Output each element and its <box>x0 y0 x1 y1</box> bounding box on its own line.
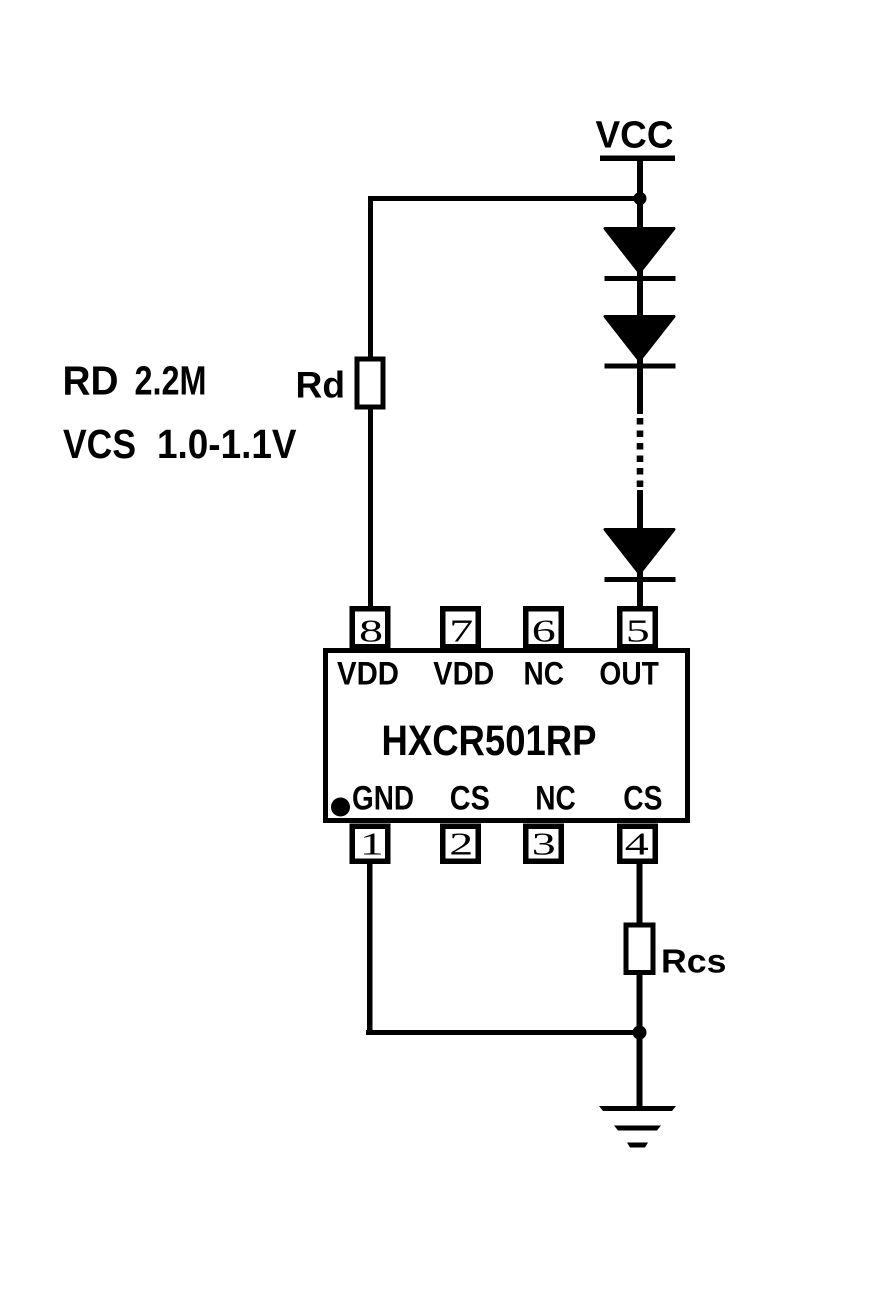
svg-text:NC: NC <box>535 779 576 817</box>
svg-text:3: 3 <box>532 825 556 861</box>
svg-text:4: 4 <box>625 825 649 861</box>
svg-text:OUT: OUT <box>599 655 659 691</box>
svg-text:GND: GND <box>352 779 414 817</box>
svg-text:VDD: VDD <box>337 655 399 691</box>
svg-text:CS: CS <box>623 779 662 817</box>
svg-text:HXCR501RP: HXCR501RP <box>382 717 597 765</box>
svg-text:2: 2 <box>449 825 473 861</box>
svg-text:5: 5 <box>626 613 650 649</box>
svg-text:RD: RD <box>63 357 119 403</box>
svg-text:6: 6 <box>532 613 556 649</box>
svg-text:VCS: VCS <box>63 421 136 467</box>
svg-text:CS: CS <box>450 779 490 817</box>
svg-text:NC: NC <box>524 655 565 691</box>
svg-text:VDD: VDD <box>433 655 494 691</box>
svg-text:8: 8 <box>359 613 383 649</box>
svg-text:1: 1 <box>360 825 384 861</box>
svg-text:2.2M: 2.2M <box>135 357 207 403</box>
svg-text:Rd: Rd <box>296 364 346 405</box>
svg-text:VCC: VCC <box>596 114 674 156</box>
svg-text:Rcs: Rcs <box>661 944 727 981</box>
svg-text:7: 7 <box>449 613 473 649</box>
svg-text:1.0-1.1V: 1.0-1.1V <box>157 421 297 467</box>
